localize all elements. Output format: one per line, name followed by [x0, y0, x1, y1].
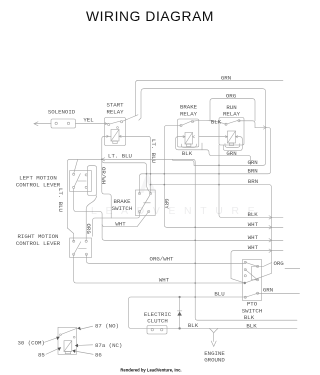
svg-text:Rendered by LeadVenture, Inc.: Rendered by LeadVenture, Inc. — [120, 368, 181, 373]
legend leader 30 COM — [45, 338, 57, 342]
wire coil link brake-run — [199, 136, 228, 138]
svg-text:LEFT MOTION: LEFT MOTION — [19, 175, 57, 182]
svg-text:WHT: WHT — [248, 221, 259, 228]
wire run relay box left vertical to BLK bus — [219, 145, 283, 217]
wire solenoid YEL — [76, 123, 109, 125]
wire BRN1 bus: brake switch to run relay NO — [140, 128, 271, 194]
wire run coil right to under-coil loop — [223, 137, 242, 151]
svg-text:BRN: BRN — [247, 167, 257, 174]
svg-text:BRAKE: BRAKE — [113, 198, 131, 205]
svg-text:GRN: GRN — [226, 150, 236, 157]
svg-text:RELAY: RELAY — [106, 109, 124, 116]
wire run coil inner loop — [225, 144, 240, 148]
svg-text:PTO: PTO — [247, 301, 258, 308]
engine ground symbol — [210, 328, 214, 333]
svg-text:YEL: YEL — [83, 117, 94, 124]
svg-text:30 (COM): 30 (COM) — [18, 340, 45, 347]
wire start coil left branch — [102, 136, 111, 218]
wire brake switch bottom to lever — [93, 212, 140, 237]
start relay U3 — [105, 118, 126, 146]
junction arrows — [263, 126, 266, 129]
right motion lever switch S2 — [70, 238, 92, 258]
svg-text:CONTROL LEVER: CONTROL LEVER — [16, 182, 61, 189]
svg-text:85: 85 — [38, 352, 45, 359]
watermark logo — [139, 172, 156, 194]
svg-text:BLK: BLK — [247, 211, 258, 218]
wire stub — [201, 143, 203, 150]
ORG box around run relay — [210, 99, 255, 121]
svg-text:87a (NC): 87a (NC) — [95, 342, 122, 349]
svg-text:SOLENOID: SOLENOID — [48, 109, 76, 116]
svg-text:RELAY: RELAY — [180, 111, 198, 118]
svg-text:ORG/WHT: ORG/WHT — [150, 255, 174, 262]
svg-text:WHT: WHT — [248, 234, 259, 241]
pin arrow YEL into start relay — [105, 123, 107, 125]
wire brake coil inner loop — [181, 144, 196, 147]
legend leader 87a NC — [78, 344, 92, 347]
run relay U1 — [219, 118, 244, 146]
wire loop curve to ORG lever wire — [86, 196, 97, 241]
wire lever loop — [87, 166, 96, 196]
wire solenoid arrow left — [34, 123, 51, 125]
svg-text:86: 86 — [95, 352, 102, 359]
wire GRN left segment from brake coil area — [173, 159, 194, 165]
wire loop bottom to WHT240 bus — [74, 189, 283, 241]
svg-text:WHT: WHT — [159, 277, 170, 284]
svg-text:BLK: BLK — [188, 322, 199, 329]
wire GRY: brake relay NC to WHT bus — [164, 126, 283, 228]
svg-text:BLK: BLK — [244, 314, 255, 321]
wire BLU / clutch box / BLK bottom — [129, 297, 298, 328]
svg-text:GRY: GRY — [163, 199, 170, 210]
wire run relay NO to BRN1 — [239, 121, 255, 128]
svg-text:SWITCH: SWITCH — [112, 205, 132, 212]
left motion lever switch S1 — [70, 171, 92, 192]
solenoid — [51, 119, 76, 128]
svg-text:BRAKE: BRAKE — [180, 104, 198, 111]
svg-text:BLU: BLU — [214, 290, 225, 297]
wire lever jog — [67, 228, 73, 241]
wire brake switch NC bottom channel — [102, 212, 149, 227]
wire brake NO to run relay contact — [193, 120, 227, 124]
legend leader 86 — [75, 351, 93, 354]
svg-text:LT. BLU: LT. BLU — [150, 139, 157, 163]
svg-text:BLK: BLK — [182, 150, 193, 157]
svg-text:BRN: BRN — [248, 178, 258, 185]
wire mid feed to brake switch — [102, 160, 151, 193]
junction dots — [101, 159, 246, 330]
wire brake relay bottom U feeder to GRN — [176, 137, 251, 166]
svg-text:RIGHT MOTION: RIGHT MOTION — [18, 233, 59, 240]
svg-text:GRN: GRN — [247, 159, 257, 166]
wire GRN top bus — [136, 80, 284, 116]
wire diode branch — [179, 297, 181, 328]
wire ORG from PTO — [258, 263, 272, 267]
svg-text:LT. BLU: LT. BLU — [57, 188, 64, 212]
svg-text:ORG: ORG — [273, 260, 284, 267]
svg-text:WHT: WHT — [115, 221, 126, 228]
PTO switch S4 — [242, 260, 261, 301]
diode D1 — [177, 312, 182, 316]
svg-text:ORG: ORG — [226, 92, 237, 99]
svg-text:GRN: GRN — [263, 287, 273, 294]
legend relay K1 — [58, 327, 77, 354]
wire WHT250 bus to PTO — [231, 251, 283, 283]
wire ORG/WHT: right lever to PTO — [86, 255, 245, 264]
wire start coil pins — [119, 136, 151, 193]
electric clutch — [147, 325, 167, 334]
svg-text:WHT: WHT — [248, 244, 259, 251]
pin arrows — [183, 136, 185, 138]
brake relay U2 — [178, 119, 199, 147]
svg-text:START: START — [106, 102, 124, 109]
svg-text:GROUND: GROUND — [204, 357, 225, 364]
svg-text:BLK: BLK — [211, 118, 222, 125]
svg-text:CONTROL LEVER: CONTROL LEVER — [16, 240, 61, 247]
svg-text:OR/WH: OR/WH — [100, 167, 107, 184]
svg-text:CLUTCH: CLUTCH — [147, 318, 167, 325]
wire WHT283: right lever to PTO — [74, 255, 245, 284]
svg-text:LT. BLU: LT. BLU — [108, 153, 132, 160]
wire loop big: GRN mid to top loop — [139, 89, 266, 166]
svg-text:RELAY: RELAY — [223, 111, 241, 118]
wire start NO up to buses — [123, 115, 138, 121]
legend leader 85 — [46, 349, 58, 355]
wire BRN2 bus: brake switch to PTO — [151, 185, 272, 274]
svg-text:BLK: BLK — [246, 322, 257, 329]
brake switch S3 — [135, 190, 155, 216]
svg-text:WIRING DIAGRAM: WIRING DIAGRAM — [86, 9, 214, 24]
svg-text:GRN: GRN — [221, 74, 231, 81]
wire GRN from PTO — [258, 292, 300, 294]
wire LT BLU long line to BLK bottom — [67, 159, 297, 320]
svg-text:ORG: ORG — [85, 224, 92, 235]
svg-text:87 (NO): 87 (NO) — [95, 322, 119, 329]
legend leader 87 NO — [80, 326, 93, 329]
